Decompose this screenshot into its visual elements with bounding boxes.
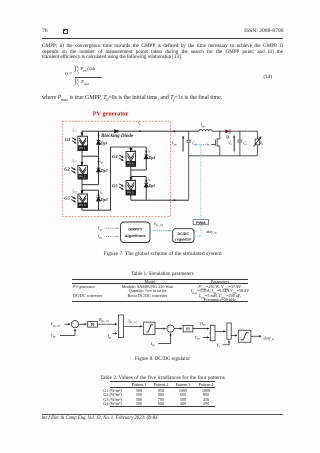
diode D (boost) <box>225 129 230 139</box>
node: is junction dot <box>139 130 141 132</box>
wire: Vpv_ref arrow to DC/DC regulator <box>150 230 171 232</box>
wire: node2 <box>82 184 99 186</box>
resistor Rs (variable load) <box>254 131 264 156</box>
PV module PV1 <box>73 128 88 157</box>
svg-text:PI: PI <box>186 328 190 332</box>
bypass diode Dp1 <box>97 131 108 156</box>
divider block 1 <box>118 315 123 338</box>
wire: duty to PWM (blue dotted) <box>194 225 201 236</box>
svg-text:Vpv_ref: Vpv_ref <box>51 322 62 328</box>
header rule <box>42 37 283 40</box>
irradiance label G4 <box>112 154 123 161</box>
wire: string bottom <box>82 209 111 211</box>
wire: riser to column 2 <box>111 147 147 210</box>
inductor Lpv <box>199 123 212 132</box>
equation (14) <box>65 71 72 77</box>
transistor Q (MOSFET switch) <box>211 130 221 155</box>
voltage arrow Vpv <box>172 136 183 151</box>
node dot at Vpv branch <box>174 130 176 132</box>
irradiance label G5 <box>112 183 123 190</box>
header ISSN <box>244 28 283 34</box>
Table 2 <box>42 375 283 381</box>
PV module PV4 <box>126 147 137 170</box>
PWM block <box>193 220 208 225</box>
capacitor Cs <box>238 131 247 156</box>
bypass diode Dp2 <box>97 156 108 185</box>
wire <box>215 330 226 332</box>
blocking diode <box>115 130 118 133</box>
wire: top bus <box>82 130 199 132</box>
wire <box>231 335 237 337</box>
where-line <box>42 95 222 102</box>
wire: PV4 bottom node <box>131 169 146 171</box>
wire: Vpv arrow to GMPPT <box>106 227 119 229</box>
Figure 8 caption <box>42 356 283 362</box>
wire: node1 <box>82 155 99 157</box>
footer rule <box>42 414 284 415</box>
GMPPT algorithm block <box>121 222 151 243</box>
bypass diode Dp5 <box>144 177 155 201</box>
wire: node3 <box>82 189 99 191</box>
PV module PV2 <box>73 156 88 185</box>
Table 1 <box>42 272 283 277</box>
svg-text:PI: PI <box>91 323 95 327</box>
svg-text:Ipv: Ipv <box>107 334 113 340</box>
irradiance label G3 <box>64 196 75 203</box>
saturation block 1 <box>144 322 155 335</box>
wire <box>155 328 166 330</box>
summing junction 1 <box>71 321 78 328</box>
divide block 3 <box>227 323 231 339</box>
wire <box>123 325 142 327</box>
bypass diode Dp4 <box>144 147 155 170</box>
svg-text:Ipv: Ipv <box>150 341 156 347</box>
svg-text:-: - <box>75 325 76 329</box>
wire: PV5 top node <box>131 170 146 177</box>
wire: array return bottom <box>131 199 189 201</box>
body paragraph <box>42 44 283 61</box>
wire <box>65 323 71 325</box>
header page number <box>42 28 48 34</box>
svg-text:-: - <box>170 329 171 333</box>
PI controller 1 <box>88 322 98 328</box>
PV module PV5 <box>126 177 137 201</box>
wire: Ipv into divider <box>113 332 117 334</box>
DC/DC regulator block <box>173 229 194 243</box>
irradiance label G2 <box>64 167 75 174</box>
PV module PV3 <box>73 189 88 211</box>
voltage arrow Vs <box>228 136 234 152</box>
wire: Ipv arrow to GMPPT <box>106 235 119 237</box>
wire: PWM to gate (blue dotted) <box>200 145 202 220</box>
summing junction 2 <box>167 325 174 332</box>
wire: top bus right (converter) <box>212 130 225 132</box>
wire <box>79 323 87 325</box>
wire: Vpv feedback <box>60 329 75 335</box>
PV generator dashed boundary box <box>62 121 170 216</box>
wire <box>193 328 209 330</box>
figure 7 caption <box>42 251 283 257</box>
svg-text:Kpv_ref: Kpv_ref <box>98 317 110 323</box>
header logo icon <box>63 29 68 34</box>
bypass diode Dp3 <box>97 190 108 210</box>
saturation block 2 <box>238 330 251 342</box>
svg-text:Ipv_ref: Ipv_ref <box>127 318 137 324</box>
svg-text:Vpv: Vpv <box>195 335 201 341</box>
svg-text:Vpv: Vpv <box>51 333 57 339</box>
svg-text:duty_m: duty_m <box>263 335 274 341</box>
capacitor Cpv <box>186 131 198 200</box>
wire: duty output <box>251 335 261 337</box>
wire: converter bottom rail <box>189 155 258 157</box>
svg-text:Vs: Vs <box>217 342 221 348</box>
svg-text:Vlpv: Vlpv <box>199 321 206 327</box>
wire: Vs into block <box>223 341 229 345</box>
wire: Ipv feedback <box>158 333 170 343</box>
footer text <box>42 416 158 421</box>
wire <box>174 328 182 330</box>
irradiance label G1 <box>65 137 76 144</box>
wire: Vpv into block <box>203 336 209 338</box>
PI controller 2 <box>183 325 193 332</box>
wire <box>98 323 118 325</box>
sum block 2 <box>210 325 215 341</box>
